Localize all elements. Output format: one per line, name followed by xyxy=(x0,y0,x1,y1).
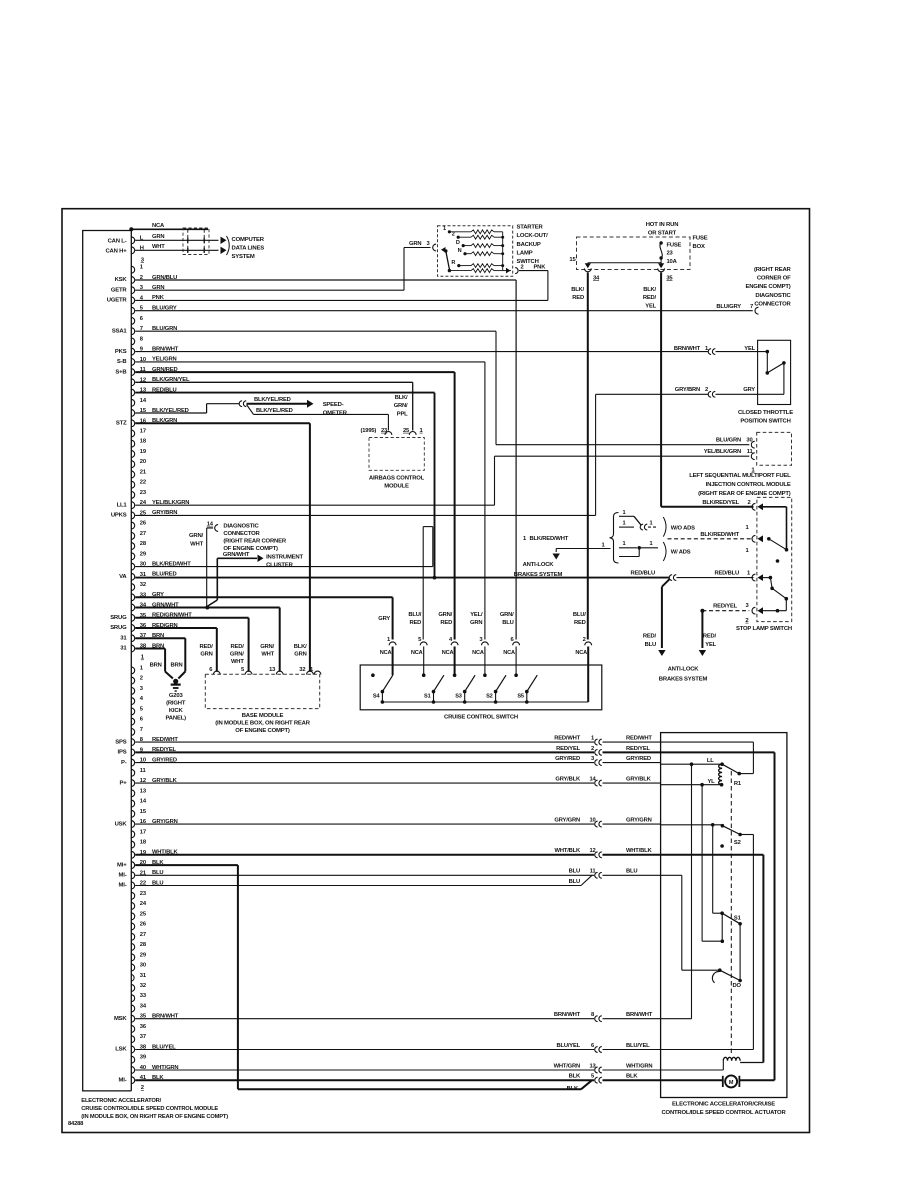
svg-text:S-B: S-B xyxy=(117,359,127,365)
svg-text:BLK/: BLK/ xyxy=(294,644,307,650)
svg-text:15: 15 xyxy=(569,257,576,263)
svg-text:WHT: WHT xyxy=(152,244,165,250)
svg-text:35: 35 xyxy=(666,275,673,281)
svg-text:MI+: MI+ xyxy=(117,862,127,868)
svg-text:S1: S1 xyxy=(424,693,431,699)
svg-text:RED/BLU: RED/BLU xyxy=(630,571,655,577)
svg-text:WHT: WHT xyxy=(261,652,274,658)
svg-text:GRN: GRN xyxy=(294,652,306,658)
svg-text:W/O ADS: W/O ADS xyxy=(671,526,695,532)
svg-text:LSK: LSK xyxy=(115,1047,127,1053)
svg-text:LOCK-OUT/: LOCK-OUT/ xyxy=(517,233,549,239)
svg-text:21: 21 xyxy=(140,470,147,476)
svg-text:2: 2 xyxy=(705,387,708,393)
svg-text:CONTROL/IDLE SPEED CONTROL ACT: CONTROL/IDLE SPEED CONTROL ACTUATOR xyxy=(661,1110,786,1116)
svg-text:(RIGHT: (RIGHT xyxy=(166,701,186,707)
svg-text:MODULE: MODULE xyxy=(384,484,409,490)
svg-text:32: 32 xyxy=(140,582,146,588)
svg-text:SWITCH: SWITCH xyxy=(517,259,539,265)
svg-text:GRN/: GRN/ xyxy=(438,612,452,618)
svg-text:BLU: BLU xyxy=(569,879,580,885)
svg-text:OF ENGINE COMPT): OF ENGINE COMPT) xyxy=(235,728,290,734)
svg-text:18: 18 xyxy=(140,439,147,445)
svg-text:BLU/: BLU/ xyxy=(408,612,421,618)
svg-text:37: 37 xyxy=(140,1034,146,1040)
svg-text:10A: 10A xyxy=(667,259,678,265)
svg-text:SYSTEM: SYSTEM xyxy=(232,254,255,260)
svg-text:34: 34 xyxy=(593,275,600,281)
svg-text:FUSE: FUSE xyxy=(667,243,682,249)
svg-text:POSITION SWITCH: POSITION SWITCH xyxy=(740,419,790,425)
svg-text:BLK/: BLK/ xyxy=(643,287,656,293)
svg-text:30: 30 xyxy=(140,963,146,969)
svg-text:IPS: IPS xyxy=(118,750,127,756)
svg-text:NCA: NCA xyxy=(472,650,484,656)
svg-text:GRY/GRN: GRY/GRN xyxy=(626,818,652,824)
svg-text:36: 36 xyxy=(140,1024,147,1030)
svg-text:BLU/GRY: BLU/GRY xyxy=(716,304,741,310)
svg-text:23: 23 xyxy=(381,428,388,434)
svg-text:23: 23 xyxy=(140,490,147,496)
svg-text:1: 1 xyxy=(650,541,653,547)
svg-text:GETR: GETR xyxy=(111,287,128,293)
svg-text:(RIGHT REAR OF ENGINE COMPT): (RIGHT REAR OF ENGINE COMPT) xyxy=(698,491,791,497)
svg-text:SSA1: SSA1 xyxy=(112,328,128,334)
svg-text:GRN/: GRN/ xyxy=(189,533,204,539)
svg-text:S2: S2 xyxy=(486,693,493,699)
svg-text:GRY: GRY xyxy=(743,387,755,393)
svg-text:BLU: BLU xyxy=(502,620,513,626)
svg-text:GRY/BLK: GRY/BLK xyxy=(555,777,581,783)
svg-text:DO: DO xyxy=(733,983,742,989)
svg-text:BASE MODULE: BASE MODULE xyxy=(242,713,284,719)
svg-text:S4: S4 xyxy=(373,693,381,699)
svg-text:SPEED-: SPEED- xyxy=(323,402,344,408)
svg-text:2: 2 xyxy=(452,231,455,237)
svg-text:KSK: KSK xyxy=(115,277,128,283)
svg-text:31: 31 xyxy=(120,635,127,641)
svg-text:27: 27 xyxy=(140,531,146,537)
svg-text:CLOSED THROTTLE: CLOSED THROTTLE xyxy=(738,410,793,416)
svg-text:33: 33 xyxy=(140,993,147,999)
svg-text:S+B: S+B xyxy=(115,369,126,375)
svg-text:20: 20 xyxy=(140,459,146,465)
svg-text:CORNER OF: CORNER OF xyxy=(757,276,791,282)
svg-text:OMETER: OMETER xyxy=(323,410,348,416)
svg-text:RED: RED xyxy=(440,620,452,626)
svg-text:ELECTRONIC ACCELERATOR/: ELECTRONIC ACCELERATOR/ xyxy=(81,1098,161,1104)
svg-text:RED/YEL: RED/YEL xyxy=(713,604,738,610)
svg-text:26: 26 xyxy=(140,521,147,527)
svg-text:7: 7 xyxy=(140,727,143,733)
svg-text:OR START: OR START xyxy=(648,231,677,237)
svg-text:13: 13 xyxy=(140,788,147,794)
svg-text:NCA: NCA xyxy=(442,650,454,656)
svg-text:BLU/: BLU/ xyxy=(573,612,586,618)
svg-text:BRAKES SYSTEM: BRAKES SYSTEM xyxy=(514,572,563,578)
svg-text:GRY: GRY xyxy=(378,616,390,622)
svg-text:BOX: BOX xyxy=(693,244,705,250)
svg-text:2: 2 xyxy=(583,637,586,643)
svg-text:39: 39 xyxy=(140,1055,147,1061)
svg-text:GRN/: GRN/ xyxy=(230,652,244,658)
svg-text:BLK/RED/YEL: BLK/RED/YEL xyxy=(702,500,739,506)
svg-text:ENGINE COMPT): ENGINE COMPT) xyxy=(745,284,790,290)
svg-text:YEL: YEL xyxy=(744,346,755,352)
svg-text:CONNECTOR: CONNECTOR xyxy=(754,301,791,307)
svg-text:RED/: RED/ xyxy=(643,295,657,301)
svg-text:DIAGNOSTIC: DIAGNOSTIC xyxy=(223,524,259,530)
svg-text:31: 31 xyxy=(140,973,147,979)
svg-text:29: 29 xyxy=(140,952,147,958)
svg-text:26: 26 xyxy=(140,922,147,928)
svg-text:AIRBAGS CONTROL: AIRBAGS CONTROL xyxy=(369,476,425,482)
svg-text:11: 11 xyxy=(747,449,754,455)
svg-text:BLU: BLU xyxy=(645,642,656,648)
svg-text:NCA: NCA xyxy=(152,223,165,229)
svg-text:19: 19 xyxy=(140,449,147,455)
svg-text:GRY/BLK: GRY/BLK xyxy=(626,777,652,783)
svg-text:CAN H+: CAN H+ xyxy=(105,249,127,255)
svg-text:R1: R1 xyxy=(734,781,742,787)
svg-text:P-: P- xyxy=(121,760,127,766)
svg-text:RED: RED xyxy=(574,620,586,626)
svg-text:WHT/BLK: WHT/BLK xyxy=(626,848,652,854)
svg-text:LL1: LL1 xyxy=(117,502,128,508)
svg-text:17: 17 xyxy=(140,829,146,835)
svg-text:WHT/GRN: WHT/GRN xyxy=(626,1063,652,1069)
svg-text:MI-: MI- xyxy=(119,873,127,879)
svg-text:BRN/WHT: BRN/WHT xyxy=(554,1012,581,1018)
svg-text:CAN L-: CAN L- xyxy=(108,239,127,245)
svg-text:RED: RED xyxy=(572,295,584,301)
svg-text:FUSE: FUSE xyxy=(693,236,708,242)
svg-text:R: R xyxy=(451,260,455,266)
svg-text:27: 27 xyxy=(140,932,146,938)
svg-text:GRN/: GRN/ xyxy=(394,403,408,409)
svg-text:PPL: PPL xyxy=(397,411,408,417)
svg-text:DIAGNOSTIC: DIAGNOSTIC xyxy=(755,293,791,299)
svg-text:RED/BLU: RED/BLU xyxy=(714,571,739,577)
svg-text:(RIGHT REAR CORNER: (RIGHT REAR CORNER xyxy=(223,539,286,545)
svg-text:CRUISE CONTROL/IDLE SPEED CONT: CRUISE CONTROL/IDLE SPEED CONTROL MODULE xyxy=(81,1106,218,1112)
svg-text:15: 15 xyxy=(140,809,147,815)
svg-text:PANEL): PANEL) xyxy=(165,716,186,722)
svg-text:2: 2 xyxy=(747,500,750,506)
svg-text:32: 32 xyxy=(140,983,146,989)
svg-text:HOT IN RUN: HOT IN RUN xyxy=(646,222,679,228)
svg-text:BLK/RED/WHT: BLK/RED/WHT xyxy=(530,536,569,542)
svg-text:MSK: MSK xyxy=(114,1016,127,1022)
svg-text:S2: S2 xyxy=(734,840,741,846)
svg-text:COMPUTER: COMPUTER xyxy=(232,237,265,243)
svg-text:RED/: RED/ xyxy=(703,634,717,640)
svg-text:S1: S1 xyxy=(734,916,742,922)
svg-text:GRN: GRN xyxy=(152,234,164,240)
svg-text:SRUG: SRUG xyxy=(110,625,127,631)
svg-text:BRAKES SYSTEM: BRAKES SYSTEM xyxy=(659,677,708,683)
svg-text:1: 1 xyxy=(650,521,653,527)
svg-text:SRUG: SRUG xyxy=(110,615,127,621)
svg-text:BLK: BLK xyxy=(567,1086,579,1092)
svg-text:17: 17 xyxy=(140,429,146,435)
svg-text:WHT/GRN: WHT/GRN xyxy=(554,1063,580,1069)
svg-text:RED/: RED/ xyxy=(643,634,657,640)
svg-text:GRY/BRN: GRY/BRN xyxy=(675,387,700,393)
svg-text:(IN MODULE BOX, ON RIGHT REAR: (IN MODULE BOX, ON RIGHT REAR xyxy=(215,721,311,727)
svg-text:13: 13 xyxy=(269,667,276,673)
svg-text:RED/YEL: RED/YEL xyxy=(626,746,651,752)
svg-text:RED/YEL: RED/YEL xyxy=(556,746,581,752)
svg-text:CRUISE CONTROL SWITCH: CRUISE CONTROL SWITCH xyxy=(444,714,518,720)
svg-text:YEL: YEL xyxy=(645,303,656,309)
svg-text:14: 14 xyxy=(140,799,147,805)
svg-text:INJECTION CONTROL MODULE: INJECTION CONTROL MODULE xyxy=(706,482,791,488)
svg-text:BACKUP: BACKUP xyxy=(517,242,541,248)
svg-text:USK: USK xyxy=(115,821,128,827)
svg-text:LL: LL xyxy=(707,758,714,764)
svg-text:NCA: NCA xyxy=(380,650,392,656)
svg-text:STARTER: STARTER xyxy=(517,225,544,231)
svg-text:ANTI-LOCK: ANTI-LOCK xyxy=(668,667,700,673)
svg-text:ANTI-LOCK: ANTI-LOCK xyxy=(523,562,555,568)
svg-text:CLUSTER: CLUSTER xyxy=(266,563,293,569)
svg-text:GRY/GRN: GRY/GRN xyxy=(554,818,580,824)
svg-text:25: 25 xyxy=(403,428,410,434)
svg-text:BLU/YEL: BLU/YEL xyxy=(556,1043,580,1049)
svg-text:BLU/YEL: BLU/YEL xyxy=(626,1043,650,1049)
svg-text:W/ ADS: W/ ADS xyxy=(671,550,691,556)
svg-text:BLK/: BLK/ xyxy=(571,287,584,293)
svg-text:GRN/: GRN/ xyxy=(260,644,274,650)
svg-text:84288: 84288 xyxy=(68,1121,84,1127)
svg-text:24: 24 xyxy=(140,901,147,907)
svg-text:LAMP: LAMP xyxy=(517,250,533,256)
svg-text:NCA: NCA xyxy=(575,650,587,656)
svg-text:(IN MODULE BOX, ON RIGHT REAR: (IN MODULE BOX, ON RIGHT REAR OF ENGINE … xyxy=(81,1114,228,1120)
svg-text:BLK: BLK xyxy=(626,1074,638,1080)
svg-text:29: 29 xyxy=(140,551,147,557)
svg-text:BLK/RED/WHT: BLK/RED/WHT xyxy=(700,532,739,538)
svg-text:GRY/RED: GRY/RED xyxy=(555,756,580,762)
svg-text:UGETR: UGETR xyxy=(107,298,128,304)
svg-text:M: M xyxy=(729,1080,734,1086)
svg-text:18: 18 xyxy=(140,840,147,846)
svg-text:2: 2 xyxy=(591,746,594,752)
svg-text:YEL: YEL xyxy=(705,642,716,648)
svg-text:INSTRUMENT: INSTRUMENT xyxy=(266,555,303,561)
svg-text:11: 11 xyxy=(140,768,147,774)
svg-text:MI-: MI- xyxy=(119,1077,127,1083)
svg-text:D: D xyxy=(456,240,460,246)
svg-text:BLU: BLU xyxy=(626,869,637,875)
svg-text:28: 28 xyxy=(140,541,147,547)
svg-text:STOP LAMP SWITCH: STOP LAMP SWITCH xyxy=(736,626,792,632)
svg-text:GRN: GRN xyxy=(200,652,212,658)
svg-text:GRY/RED: GRY/RED xyxy=(626,756,651,762)
svg-text:1: 1 xyxy=(623,521,626,527)
svg-text:GRN/WHT: GRN/WHT xyxy=(223,552,250,558)
svg-text:STZ: STZ xyxy=(116,421,127,427)
svg-text:PNK: PNK xyxy=(534,265,547,271)
svg-text:28: 28 xyxy=(140,942,147,948)
svg-text:2: 2 xyxy=(521,265,524,271)
svg-text:S3: S3 xyxy=(455,693,462,699)
svg-text:NCA: NCA xyxy=(411,650,423,656)
svg-text:7: 7 xyxy=(750,304,753,310)
svg-text:BLK: BLK xyxy=(569,1074,581,1080)
svg-text:2: 2 xyxy=(140,676,143,682)
svg-text:BLU: BLU xyxy=(569,869,580,875)
svg-text:WHT: WHT xyxy=(231,659,244,665)
svg-text:1: 1 xyxy=(443,226,446,232)
svg-text:LEFT SEQUENTIAL MULTIPORT FUEL: LEFT SEQUENTIAL MULTIPORT FUEL xyxy=(689,473,791,479)
svg-text:RED: RED xyxy=(409,620,421,626)
svg-text:WHT: WHT xyxy=(190,542,203,548)
svg-text:RED/WHT: RED/WHT xyxy=(626,736,652,742)
svg-text:23: 23 xyxy=(140,891,147,897)
svg-text:KICK: KICK xyxy=(169,708,184,714)
svg-text:RED/: RED/ xyxy=(231,644,245,650)
svg-text:NCA: NCA xyxy=(503,650,515,656)
svg-text:DATA LINES: DATA LINES xyxy=(232,246,265,252)
svg-text:UPKS: UPKS xyxy=(111,513,127,519)
svg-text:VA: VA xyxy=(119,574,127,580)
svg-text:YEL/BLK/GRN: YEL/BLK/GRN xyxy=(704,449,741,455)
svg-text:BRN/WHT: BRN/WHT xyxy=(674,346,701,352)
svg-text:SPS: SPS xyxy=(115,739,126,745)
svg-text:32: 32 xyxy=(299,667,305,673)
svg-text:22: 22 xyxy=(140,480,146,486)
svg-text:BLK/: BLK/ xyxy=(395,395,408,401)
svg-text:BLK/YEL/RED: BLK/YEL/RED xyxy=(254,397,291,403)
svg-text:RED/: RED/ xyxy=(200,644,214,650)
svg-text:GRN: GRN xyxy=(470,620,482,626)
svg-text:BRN: BRN xyxy=(171,662,183,668)
svg-text:S5: S5 xyxy=(517,693,524,699)
svg-text:1: 1 xyxy=(623,510,626,516)
svg-text:RED/WHT: RED/WHT xyxy=(554,736,580,742)
svg-text:WHT/BLK: WHT/BLK xyxy=(555,848,581,854)
svg-text:31: 31 xyxy=(120,646,127,652)
svg-text:25: 25 xyxy=(140,911,147,917)
svg-text:BRN/WHT: BRN/WHT xyxy=(626,1012,653,1018)
svg-text:14: 14 xyxy=(207,522,214,528)
svg-text:P+: P+ xyxy=(119,780,127,786)
svg-text:YEL/: YEL/ xyxy=(470,612,483,618)
svg-text:MI-: MI- xyxy=(119,883,127,889)
svg-text:1: 1 xyxy=(623,541,626,547)
svg-text:PKS: PKS xyxy=(115,349,127,355)
svg-text:ELECTRONIC ACCELERATOR/CRUISE: ELECTRONIC ACCELERATOR/CRUISE xyxy=(672,1101,775,1107)
svg-text:CONNECTOR: CONNECTOR xyxy=(223,531,260,537)
svg-text:34: 34 xyxy=(140,1004,147,1010)
svg-text:N: N xyxy=(458,248,462,254)
svg-text:GRN: GRN xyxy=(409,241,421,247)
svg-text:G203: G203 xyxy=(169,693,184,699)
svg-text:BRN: BRN xyxy=(150,662,162,668)
svg-text:(1995): (1995) xyxy=(361,428,377,434)
svg-text:23: 23 xyxy=(667,251,674,257)
svg-text:14: 14 xyxy=(140,398,147,404)
svg-text:GRN/: GRN/ xyxy=(500,612,514,618)
svg-text:BLU/GRN: BLU/GRN xyxy=(716,438,741,444)
svg-text:(RIGHT REAR: (RIGHT REAR xyxy=(754,267,792,273)
svg-text:BLK/YEL/RED: BLK/YEL/RED xyxy=(256,408,293,414)
